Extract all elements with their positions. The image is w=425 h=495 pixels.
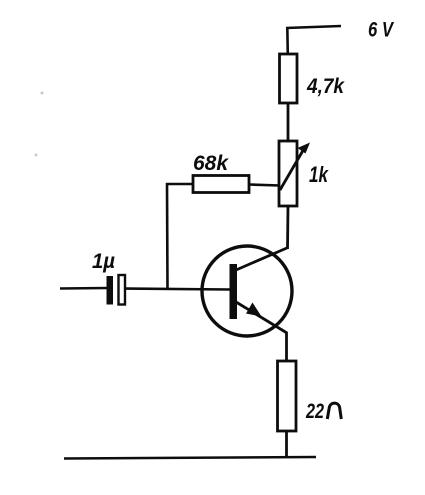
wire input lead left [60, 287, 108, 290]
resistor R4 22 ohm body [278, 361, 297, 431]
svg-text:6 V: 6 V [368, 19, 395, 42]
svg-text:1µ: 1µ [92, 250, 115, 273]
wire R1 bottom to potentiometer top [287, 103, 290, 142]
transistor Q1 base bar [230, 264, 238, 319]
potentiometer R2 wiper arrow [280, 143, 310, 191]
transistor Q1 emitter stroke with arrow [236, 302, 287, 333]
node 6V supply label [368, 19, 395, 42]
wire ground rail [64, 457, 316, 459]
capacitor C1 left plate [107, 276, 114, 305]
wire 68k left lead [166, 183, 193, 186]
wire potentiometer bottom to collector node [286, 206, 289, 249]
value label 1k [309, 162, 329, 187]
wire 68k right lead to potentiometer [249, 185, 280, 186]
wire R4 bottom to ground rail [285, 431, 288, 458]
transistor Q1 body circle [202, 246, 292, 336]
value label 4.7k [306, 75, 345, 98]
transistor Q1 collector stroke [236, 248, 288, 271]
potentiometer R2 1k body [279, 141, 297, 206]
svg-text:1k: 1k [309, 162, 329, 187]
value label 1u input cap [92, 250, 115, 273]
scan speck [41, 92, 44, 95]
wire from supply rail down to R1 [286, 27, 289, 55]
capacitor C1 right plate [119, 275, 126, 305]
svg-text:68k: 68k [193, 152, 229, 175]
wire emitter down to R4 [285, 332, 288, 362]
svg-text:4,7k: 4,7k [306, 75, 345, 98]
wire capacitor to base [125, 289, 230, 290]
resistor R3 68k body [193, 176, 249, 193]
wire feedback vertical down to base node [166, 183, 169, 290]
resistor R1 4.7k body [280, 54, 298, 103]
wire top supply rail [286, 26, 341, 28]
value label 22 ohm [305, 400, 341, 423]
value label 68k [193, 152, 229, 175]
scan speck [35, 154, 38, 157]
svg-text:22: 22 [305, 400, 324, 423]
